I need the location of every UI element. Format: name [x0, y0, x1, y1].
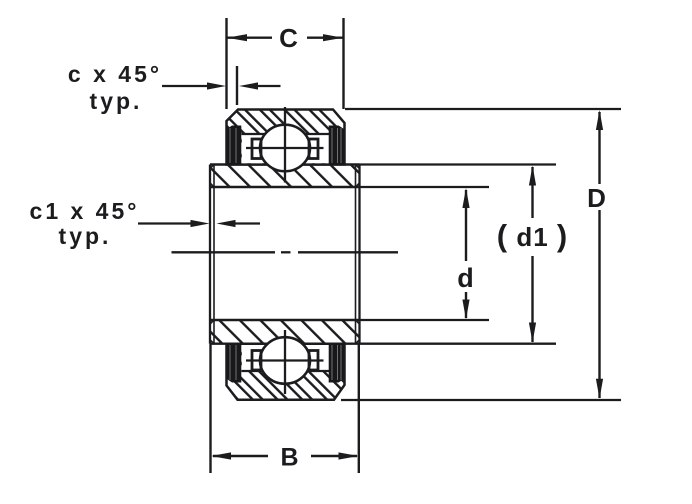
svg-text:C: C: [279, 23, 298, 53]
c1 leader line and arrows: [138, 220, 260, 227]
bottom ball crosshair: [246, 330, 324, 394]
c leader line and arrows: [162, 82, 281, 89]
cage bracket top-right: [309, 139, 318, 159]
d extension line bottom: [360, 319, 490, 321]
top ledge line left: [242, 133, 266, 135]
svg-text:B: B: [280, 444, 298, 472]
seal top-right (dark): [329, 126, 344, 165]
cage bracket top-left: [252, 139, 261, 159]
bottom ledge line right: [307, 370, 330, 372]
cage pocket top-left (white): [242, 134, 269, 163]
svg-text:c x 45°: c x 45°: [68, 61, 162, 87]
cage pocket top-right (white): [302, 134, 329, 163]
cage bracket bottom-left: [252, 351, 261, 371]
top ball: [260, 125, 310, 172]
D extension line bottom: [341, 399, 621, 401]
c chamfer tick: [236, 66, 238, 105]
seal top-left (dark): [227, 126, 241, 165]
d dimension line with arrows: [462, 188, 469, 320]
d extension line top: [360, 186, 490, 188]
d1 extension line bottom: [360, 343, 557, 345]
top ball crosshair: [246, 107, 324, 183]
seal bottom-left (dark): [227, 344, 241, 383]
inner ring corner chamfers: [210, 165, 360, 344]
seal bottom-right (dark): [329, 344, 344, 383]
svg-text:typ.: typ.: [59, 223, 112, 249]
cage pocket bottom-right (white): [302, 345, 329, 371]
svg-text:d: d: [457, 263, 474, 293]
svg-text:( d1 ): ( d1 ): [497, 218, 568, 253]
D dimension line with arrows: [596, 110, 603, 399]
C dimension line: [227, 34, 344, 41]
svg-text:typ.: typ.: [90, 88, 143, 114]
bottom ledge line left: [242, 370, 264, 372]
B extension line right: [358, 344, 360, 473]
B extension line left: [209, 344, 211, 473]
C extension line left: [225, 18, 227, 109]
svg-text:c1 x 45°: c1 x 45°: [30, 198, 140, 224]
inner ring left face lines: [210, 165, 214, 344]
d1 extension line top: [360, 163, 557, 165]
inner ring right face lines: [356, 165, 360, 344]
cage bracket bottom-right: [309, 351, 318, 371]
inner ring bottom band (hatched): [210, 320, 360, 344]
cage pocket bottom-left (white): [242, 345, 269, 371]
outer ring bottom section (hatched, chamfered): [227, 344, 345, 400]
top ledge line right: [305, 133, 330, 135]
B dimension line: [211, 452, 359, 459]
C extension line right: [342, 18, 344, 109]
bottom ball: [260, 337, 310, 384]
d1 dimension line with arrows: [529, 166, 536, 343]
outer ring top section (hatched, chamfered): [227, 110, 345, 165]
svg-text:D: D: [587, 183, 606, 213]
centerline (dash-dot): [172, 251, 399, 253]
D extension line top: [345, 108, 621, 110]
inner ring top band (hatched): [210, 165, 360, 188]
